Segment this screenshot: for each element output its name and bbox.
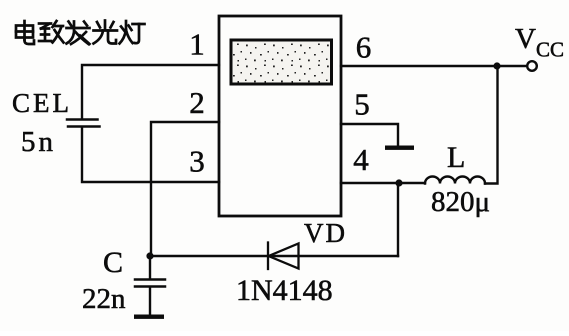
svg-text:VD: VD — [304, 218, 347, 248]
wire pin4 — [341, 182, 425, 184]
wire diode row — [150, 255, 398, 257]
IC U1 body — [219, 16, 341, 216]
IC U1 stippled window — [231, 40, 332, 84]
diode VD — [268, 243, 299, 270]
junction dot pin4/L — [395, 179, 402, 186]
svg-text:3: 3 — [189, 144, 205, 179]
svg-text:5n: 5n — [21, 126, 56, 158]
灯 — [121, 27, 125, 32]
svg-text:1N4148: 1N4148 — [236, 274, 333, 307]
发 — [69, 22, 72, 27]
光 — [104, 21, 107, 30]
致 — [39, 22, 51, 25]
capacitor CEL — [67, 120, 100, 127]
svg-text:820μ: 820μ — [431, 186, 490, 218]
svg-text:6: 6 — [356, 30, 372, 65]
ground (pin 5) — [385, 146, 414, 150]
svg-text:1: 1 — [189, 27, 205, 62]
capacitor C plates — [135, 280, 165, 287]
wire up to pin4 node — [397, 183, 399, 256]
svg-text:22n: 22n — [82, 283, 126, 315]
wire inductor to Vcc rail — [485, 66, 498, 184]
wire pin5 to ground — [341, 124, 398, 145]
电 — [23, 21, 26, 40]
svg-text:C: C — [103, 246, 123, 279]
terminal Vcc open circle — [527, 61, 537, 71]
svg-text:4: 4 — [353, 142, 369, 177]
svg-text:VCC: VCC — [515, 23, 564, 62]
capacitor C leads — [149, 256, 151, 315]
wire CEL bottom to pin3 — [82, 128, 219, 182]
ground (C) — [134, 315, 164, 319]
junction dot Vcc — [493, 62, 500, 69]
svg-text:2: 2 — [189, 85, 205, 120]
wire pin1 to CEL top — [82, 65, 219, 118]
title text 电致发光灯 — [16, 21, 145, 45]
inductor L — [425, 177, 485, 184]
wire pin6 to Vcc — [341, 65, 527, 67]
wire pin2 down — [151, 122, 219, 256]
svg-text:5: 5 — [354, 87, 370, 122]
junction dot diode/C — [146, 252, 153, 259]
svg-text:L: L — [447, 141, 465, 174]
svg-text:CEL: CEL — [12, 88, 72, 118]
